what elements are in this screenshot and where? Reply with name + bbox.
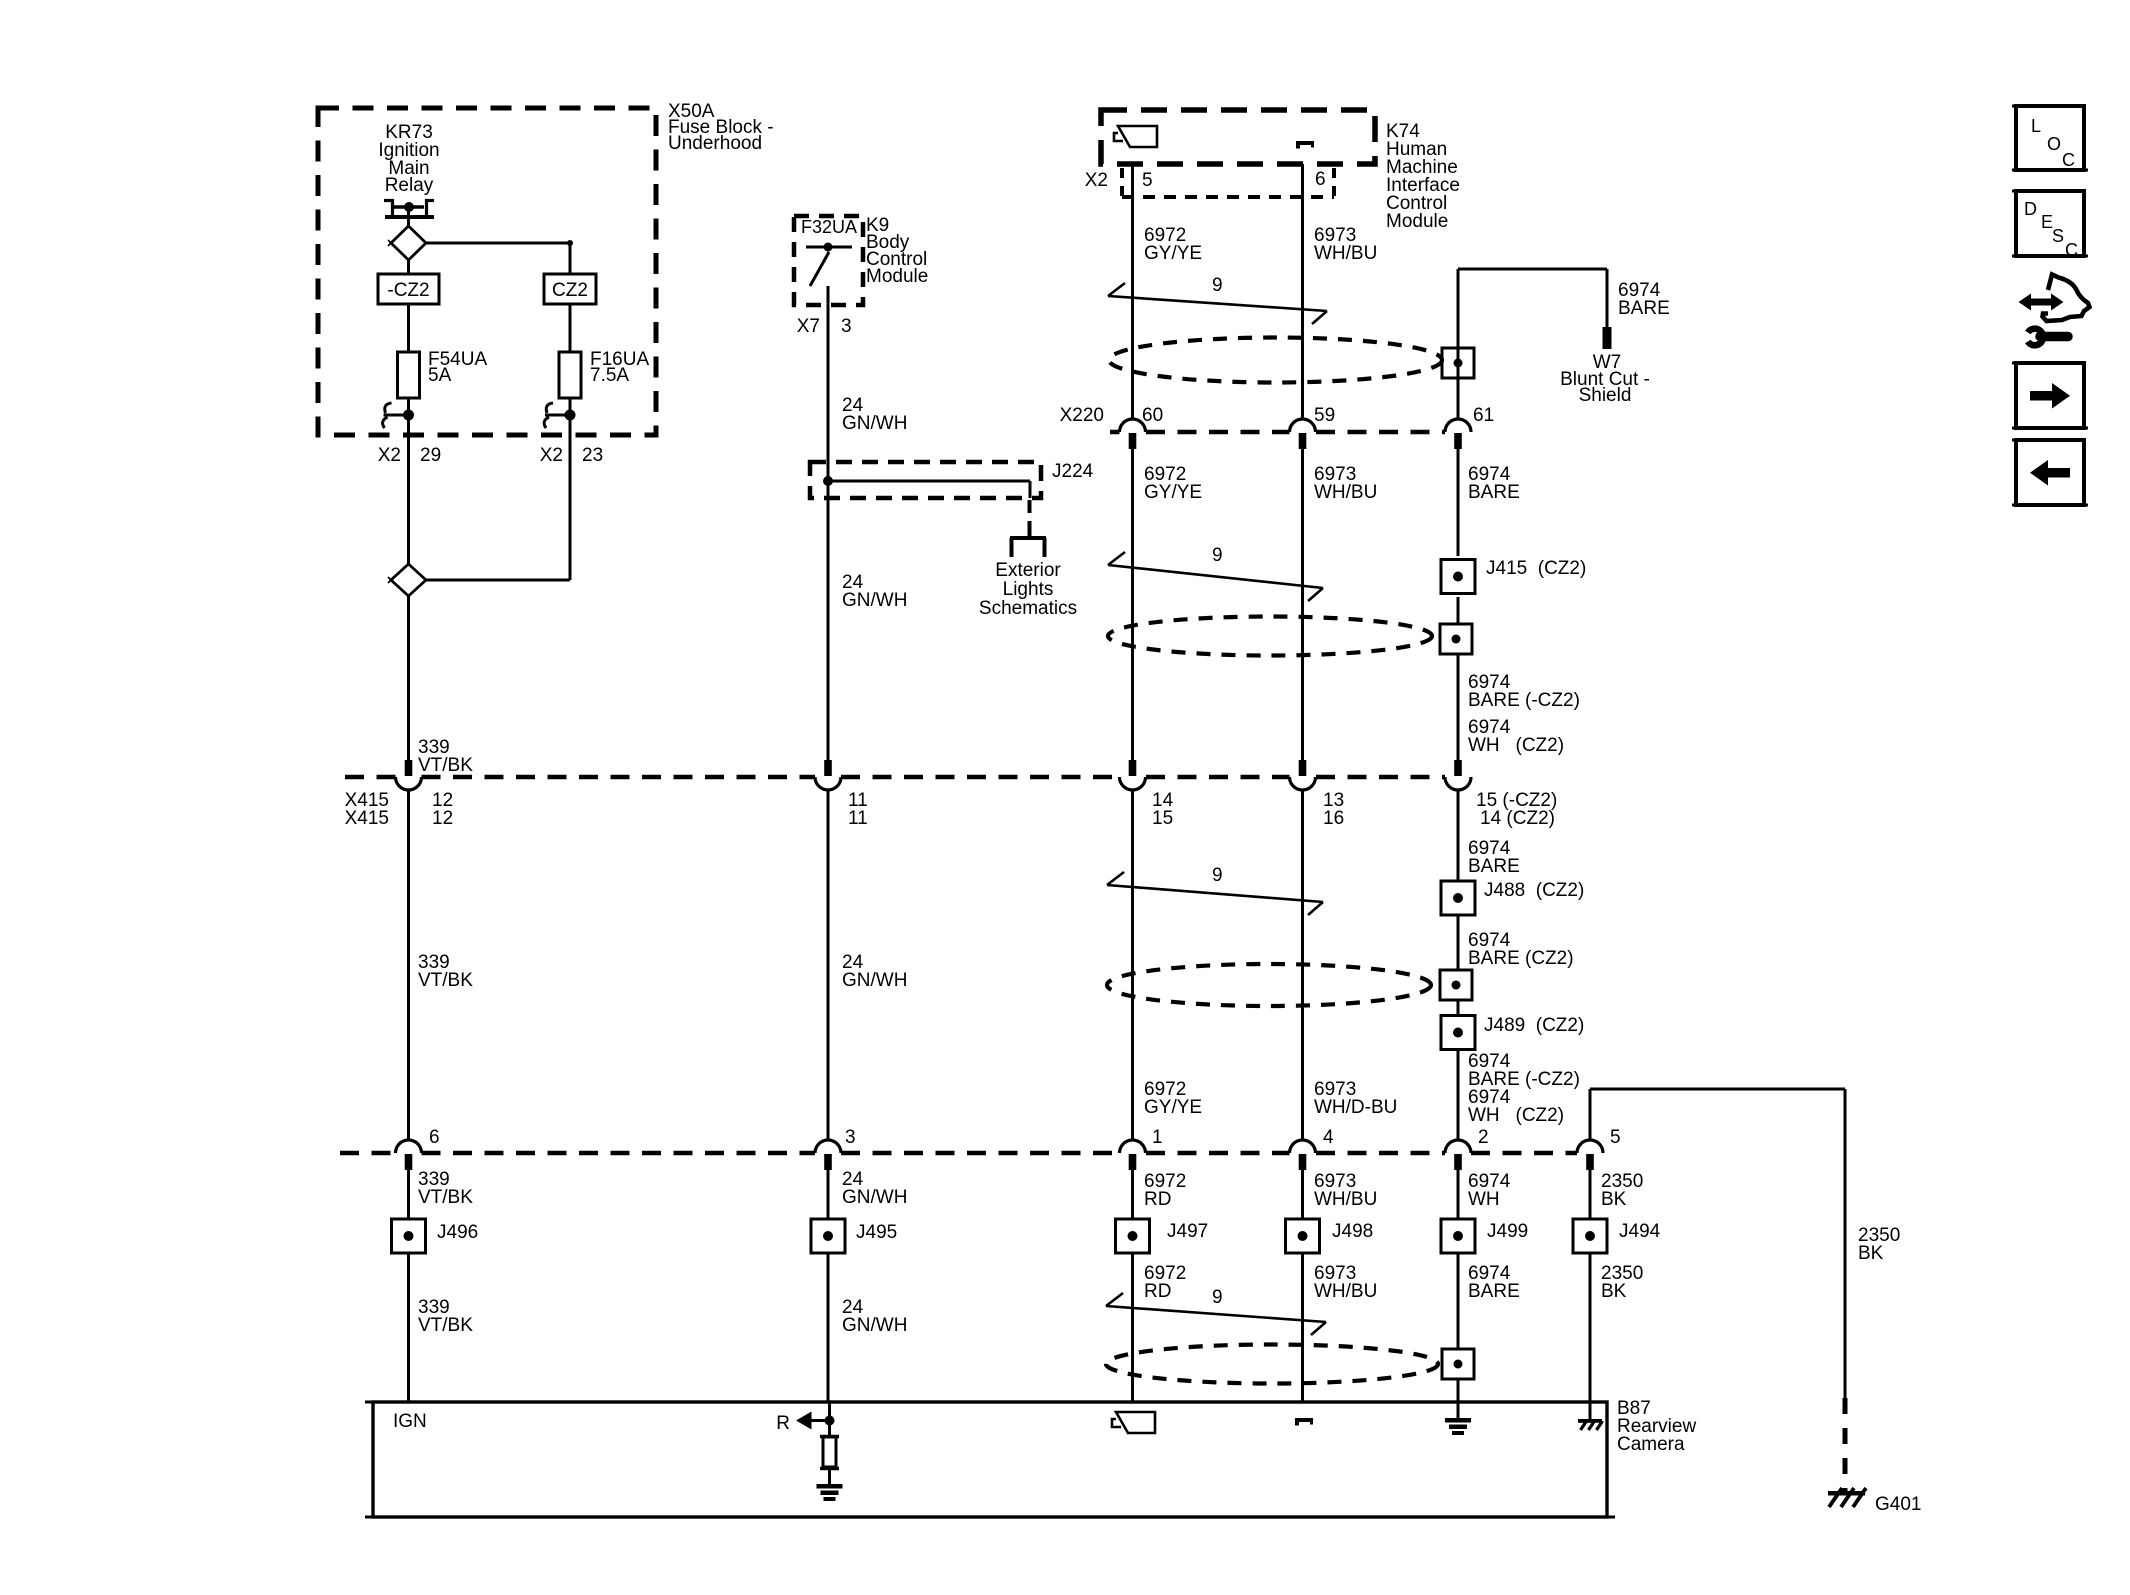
wire 6973 X415 to bottom connector <box>1301 790 1304 1140</box>
wire 6974 J415 to shield box <box>1457 597 1460 624</box>
shield connection box (third) on wire 6974 <box>1440 970 1472 1000</box>
svg-text:GN/WH: GN/WH <box>842 590 907 611</box>
wire 6972 J497 to B87 <box>1131 1253 1134 1402</box>
pin label X2 5 6 of K74 <box>1085 169 1326 191</box>
icon previous-page arrow box <box>2012 440 2088 505</box>
label W7 Blunt Cut - Shield <box>1560 352 1650 406</box>
node junction diamond lower <box>388 564 570 596</box>
svg-text:5A: 5A <box>428 365 452 386</box>
label wire 339 VT/BK (above X415) <box>418 737 473 776</box>
svg-text:J415 (CZ2): J415 (CZ2) <box>1486 558 1586 579</box>
svg-text:29: 29 <box>420 445 441 466</box>
svg-text:J488 (CZ2): J488 (CZ2) <box>1484 880 1584 901</box>
pin label X2 23 <box>540 445 603 466</box>
svg-text:5: 5 <box>1142 170 1153 191</box>
svg-text:C: C <box>2062 150 2075 170</box>
shield ellipse (third) <box>1107 964 1431 1006</box>
svg-text:9: 9 <box>1212 865 1223 886</box>
label KR73 Ignition Main Relay <box>378 122 439 196</box>
splice J489 (CZ2) <box>1441 1015 1584 1050</box>
svg-text:GY/YE: GY/YE <box>1144 243 1202 264</box>
label Exterior Lights Schematics <box>979 560 1077 619</box>
svg-text:9: 9 <box>1212 1287 1223 1308</box>
svg-text:Exterior: Exterior <box>995 560 1061 581</box>
svg-text:R: R <box>776 1413 790 1434</box>
label 6973 WH/BU below J498 <box>1314 1263 1377 1302</box>
svg-text:4: 4 <box>1323 1127 1334 1148</box>
wire 339 J496 to B87 <box>407 1253 410 1402</box>
wire 6974 shield drain from W7 corner <box>1458 269 1607 419</box>
wire 6972 X415 to bottom connector <box>1131 790 1134 1140</box>
relay contact output box -CZ2 <box>378 274 439 304</box>
label X415 X415 <box>345 790 389 829</box>
wire 6973 to J498 <box>1301 1170 1304 1219</box>
connector pin 4 bottom <box>1290 1140 1316 1170</box>
svg-text:BARE: BARE <box>1468 856 1520 877</box>
wire 2350 BK dashed drop to G401 <box>1843 1398 1848 1491</box>
wire fuse F16UA down to rejoin diamond <box>569 398 572 580</box>
label wire 6974 BARE (below X220) <box>1468 464 1520 503</box>
svg-text:BARE (-CZ2): BARE (-CZ2) <box>1468 690 1580 711</box>
twisted pair marker 9 (bottom) <box>1106 1287 1326 1335</box>
svg-text:BARE: BARE <box>1468 482 1520 503</box>
shield connection box (top) on wire 6974 <box>1442 348 1474 378</box>
module K74 Human Machine Interface Control Module dashed box <box>1101 110 1375 164</box>
wire relay to diamond <box>407 207 410 228</box>
wire fuse F54UA down through fuse block edge <box>407 398 410 564</box>
label 2350 BK below J494 <box>1601 1263 1643 1302</box>
label 6974 BARE above J488 <box>1468 838 1520 877</box>
wire 6974 shield box to J489 <box>1457 1000 1460 1015</box>
shield ellipse (second) <box>1108 617 1432 656</box>
label wire 6972 GY/YE above bottom connector <box>1144 1079 1202 1118</box>
wire 6973 WH/BU from K74 pin 6 to X220 <box>1301 164 1304 419</box>
splice J488 (CZ2) <box>1441 880 1584 915</box>
splice J496 <box>392 1219 479 1253</box>
svg-text:BK: BK <box>1601 1189 1627 1210</box>
module B87 Rearview Camera box <box>365 1402 1615 1517</box>
wire 339 to J496 <box>407 1170 410 1219</box>
label wire 24 GN/WH (mid) <box>842 952 907 991</box>
label F32UA <box>801 217 857 237</box>
wire branch diamond to CZ2 (horizontal) <box>426 240 573 274</box>
wire 6972 to J497 <box>1131 1170 1134 1219</box>
camera symbol inside K74 <box>1114 126 1157 147</box>
svg-text:J496: J496 <box>437 1222 478 1243</box>
connector pin 6 bottom <box>396 1140 422 1170</box>
label 6974 BARE (-CZ2) / 6974 WH (CZ2) above bottom connector <box>1468 1051 1580 1126</box>
label 6974 BARE at W7 <box>1618 280 1670 319</box>
resistor inside B87 <box>820 1437 839 1469</box>
shield ellipse (top) <box>1109 338 1442 383</box>
ground G401 symbol <box>1828 1488 1866 1507</box>
svg-text:BK: BK <box>1601 1281 1627 1302</box>
splice J498 <box>1286 1219 1374 1253</box>
wire 6974 X220 to J415 <box>1457 449 1460 556</box>
svg-text:G401: G401 <box>1875 1494 1921 1515</box>
label X50A Fuse Block - Underhood <box>668 101 774 154</box>
svg-text:J494: J494 <box>1619 1221 1661 1242</box>
wire 6974 shield box to B87 <box>1457 1379 1460 1402</box>
splice J494 <box>1573 1219 1661 1253</box>
svg-text:Lights: Lights <box>1003 579 1054 600</box>
svg-text:GN/WH: GN/WH <box>842 413 907 434</box>
fuse F54UA 5A <box>398 349 488 398</box>
svg-text:BARE (CZ2): BARE (CZ2) <box>1468 948 1574 969</box>
connector pins 13 16 at X415 wire 6973 <box>1290 760 1316 790</box>
label 6974 BARE below J499 <box>1468 1263 1520 1302</box>
icon DESC box <box>2012 191 2088 260</box>
label K9 Body Control Module <box>866 215 928 287</box>
clip terminal under F54UA <box>383 403 414 428</box>
svg-text:59: 59 <box>1314 405 1335 426</box>
svg-text:3: 3 <box>841 316 852 337</box>
label 339 VT/BK below pin 6 <box>418 1169 473 1208</box>
shield ellipse (bottom) <box>1106 1345 1438 1384</box>
wire 339 X415 to bottom connector <box>407 790 410 1140</box>
svg-text:WH (CZ2): WH (CZ2) <box>1468 735 1564 756</box>
svg-text:6: 6 <box>429 1127 440 1148</box>
dash symbol inside K74 <box>1296 141 1314 149</box>
twisted pair marker 9 (top) <box>1108 275 1327 324</box>
connector pin 60 at X220 <box>1120 419 1146 449</box>
connector pins 15 14 at X415 wire 6974 <box>1445 760 1471 790</box>
splice J499 <box>1441 1219 1528 1253</box>
off-page connector fork (exterior lights) <box>1010 521 1046 557</box>
blunt cut terminal W7 <box>1603 327 1612 349</box>
twisted pair marker 9 (second) <box>1108 545 1323 601</box>
fuse F16UA 7.5A <box>559 349 649 398</box>
svg-text:11: 11 <box>848 808 868 829</box>
wire dashed branch to exterior lights <box>1028 500 1032 523</box>
harness connector X415 dashed line <box>345 775 1445 780</box>
svg-text:VT/BK: VT/BK <box>418 970 473 991</box>
svg-text:O: O <box>2047 134 2061 154</box>
svg-text:Camera: Camera <box>1617 1434 1685 1455</box>
svg-text:IGN: IGN <box>393 1411 427 1432</box>
shield connection box (bottom) on wire 6974 <box>1442 1349 1474 1379</box>
internal ground symbol (camera reverse circuit) <box>817 1484 843 1501</box>
pin labels 13 16 <box>1323 790 1344 829</box>
label K74 Human Machine Interface Control Module <box>1386 121 1460 232</box>
connector pin 3 bottom <box>815 1140 841 1170</box>
label wire 6972 GY/YE (below X220) <box>1144 464 1202 503</box>
pin labels 14 15 <box>1152 790 1174 829</box>
label wire 6972 GY/YE (top) <box>1144 225 1202 264</box>
icon component locator (double arrow, outline, wrench) <box>2019 275 2090 346</box>
connector pin 59 at X220 <box>1290 419 1316 449</box>
svg-text:Underhood: Underhood <box>668 133 762 154</box>
svg-text:J495: J495 <box>856 1222 897 1243</box>
svg-text:J498: J498 <box>1332 1221 1373 1242</box>
wire 2350 to J494 <box>1589 1170 1592 1219</box>
wire 339 VT/BK diamond to X415 <box>407 596 410 760</box>
label IGN inside B87 <box>393 1411 427 1432</box>
wire 2350 BK from pin 5 up and right to G401 branch <box>1590 1089 1845 1398</box>
svg-text:23: 23 <box>582 445 603 466</box>
icon next-page arrow box <box>2012 363 2088 428</box>
svg-text:J497: J497 <box>1167 1221 1208 1242</box>
svg-text:GN/WH: GN/WH <box>842 1315 907 1336</box>
svg-text:GY/YE: GY/YE <box>1144 1097 1202 1118</box>
svg-text:WH/BU: WH/BU <box>1314 1281 1377 1302</box>
label 24 GN/WH below pin 3 <box>842 1169 907 1208</box>
wire 6974 into ground symbol inside B87 <box>1457 1402 1460 1418</box>
svg-text:X415: X415 <box>345 808 389 829</box>
splice pack J224 dashed box <box>810 462 1041 498</box>
harness connector X220 dashed line <box>1110 430 1445 435</box>
wire 24 GN/WH from K9 to X415 <box>827 286 830 760</box>
svg-text:7.5A: 7.5A <box>590 365 629 386</box>
svg-text:61: 61 <box>1473 405 1494 426</box>
svg-text:X2: X2 <box>1085 170 1108 191</box>
svg-text:X2: X2 <box>378 445 401 466</box>
svg-text:WH (CZ2): WH (CZ2) <box>1468 1105 1564 1126</box>
svg-text:GY/YE: GY/YE <box>1144 482 1202 503</box>
svg-text:F32UA: F32UA <box>801 217 857 237</box>
svg-text:RD: RD <box>1144 1189 1171 1210</box>
svg-text:12: 12 <box>432 808 453 829</box>
wire 6974 J499 to shield box bottom <box>1457 1253 1460 1348</box>
svg-text:14 (CZ2): 14 (CZ2) <box>1480 808 1555 829</box>
connector pin 1 bottom <box>1120 1140 1146 1170</box>
svg-text:L: L <box>2031 116 2041 136</box>
clip terminal under F16UA <box>544 403 575 428</box>
connector pin 2 bottom <box>1445 1140 1471 1170</box>
wire 6974 to J499 <box>1457 1170 1460 1219</box>
label G401 <box>1875 1494 1921 1515</box>
shield connection box (second) on wire 6974 <box>1440 624 1472 654</box>
label 6972 RD below pin 1 <box>1144 1171 1186 1210</box>
svg-text:WH/BU: WH/BU <box>1314 1189 1377 1210</box>
svg-text:BARE: BARE <box>1468 1281 1520 1302</box>
reverse input R arrow and junction <box>776 1402 834 1437</box>
pin label X2 29 <box>378 445 441 466</box>
svg-text:Module: Module <box>866 266 928 287</box>
label 6972 RD below J497 <box>1144 1263 1186 1302</box>
svg-text:X220: X220 <box>1060 405 1104 426</box>
wire 24 X415 to bottom connector <box>827 790 830 1140</box>
wire CZ2 to fuse F16UA <box>569 304 572 352</box>
camera symbol inside B87 <box>1112 1412 1155 1433</box>
connector pins 12 12 at X415 wire 339 <box>396 760 422 790</box>
connector pins 14 15 at X415 wire 6972 <box>1120 760 1146 790</box>
connector X2 of K74 dashed outline <box>1122 168 1334 197</box>
dash symbol inside B87 <box>1295 1418 1313 1426</box>
wire 24 to J495 <box>827 1170 830 1219</box>
wire 6972 X220 to X415 <box>1131 449 1134 760</box>
wire resistor to internal ground <box>828 1469 831 1484</box>
pin number labels 6 3 1 4 2 5 <box>429 1127 1621 1148</box>
svg-text:CZ2: CZ2 <box>552 280 588 301</box>
label 6974 WH below pin 2 <box>1468 1171 1511 1210</box>
splice J497 <box>1116 1219 1209 1253</box>
svg-text:5: 5 <box>1610 1127 1621 1148</box>
svg-text:J224: J224 <box>1052 461 1094 482</box>
svg-text:VT/BK: VT/BK <box>418 1187 473 1208</box>
label 2350 BK below pin 5 <box>1601 1171 1643 1210</box>
wire 6974 J488 to shield box third <box>1457 916 1460 970</box>
svg-text:J489 (CZ2): J489 (CZ2) <box>1484 1015 1584 1036</box>
splice J415 (CZ2) <box>1441 558 1586 594</box>
svg-text:WH/BU: WH/BU <box>1314 482 1377 503</box>
label 2350 BK right side <box>1858 1225 1900 1264</box>
svg-text:VT/BK: VT/BK <box>418 755 473 776</box>
wire 6972 GY/YE from K74 pin 5 to X220 <box>1131 164 1134 419</box>
module K9 Body Control Module fuse F32UA dashed box <box>794 216 863 305</box>
svg-text:WH: WH <box>1468 1189 1500 1210</box>
label wire 6973 WH/BU (below X220) <box>1314 464 1377 503</box>
fuse element F32UA symbol <box>806 243 852 287</box>
label wire 339 VT/BK (mid) <box>418 952 473 991</box>
svg-text:S: S <box>2052 226 2064 246</box>
svg-text:C: C <box>2065 240 2078 260</box>
label wire 6973 WH/BU (top) <box>1314 225 1377 264</box>
svg-text:X7: X7 <box>797 316 820 337</box>
svg-text:GN/WH: GN/WH <box>842 970 907 991</box>
svg-text:X2: X2 <box>540 445 563 466</box>
svg-text:1: 1 <box>1152 1127 1163 1148</box>
wire 6974 J489 to bottom connector <box>1457 1050 1460 1140</box>
relay KR73 terminal symbol <box>384 199 434 217</box>
twisted pair marker 9 (third) <box>1107 865 1323 915</box>
label 24 GN/WH below J495 <box>842 1297 907 1336</box>
svg-text:60: 60 <box>1142 405 1163 426</box>
wire 6973 J498 to B87 <box>1301 1253 1304 1402</box>
wire 2350 into chassis ground inside B87 <box>1589 1402 1592 1419</box>
svg-text:6: 6 <box>1315 169 1326 190</box>
label B87 Rearview Camera <box>1617 1398 1696 1455</box>
wire 6974 shield box to X415 <box>1457 654 1460 760</box>
svg-text:15: 15 <box>1152 808 1173 829</box>
svg-text:16: 16 <box>1323 808 1344 829</box>
label wire 24 GN/WH (below J224) <box>842 572 907 611</box>
relay contact output box CZ2 <box>544 274 596 304</box>
pin label X7 3 <box>797 316 852 337</box>
svg-text:Module: Module <box>1386 211 1448 232</box>
svg-text:2: 2 <box>1478 1127 1489 1148</box>
svg-text:D: D <box>2024 199 2037 219</box>
wire 6973 X220 to X415 <box>1301 449 1304 760</box>
icon LOC box <box>2012 106 2088 170</box>
svg-text:RD: RD <box>1144 1281 1171 1302</box>
connector pin 61 at X220 <box>1445 419 1471 449</box>
svg-text:J499: J499 <box>1487 1221 1528 1242</box>
label wire 24 GN/WH (below K9) <box>842 395 907 434</box>
pin labels 15 (-CZ2) 14 (CZ2) <box>1476 790 1557 829</box>
label 6973 WH/BU below pin 4 <box>1314 1171 1377 1210</box>
wire diamond to -CZ2 box <box>407 260 410 274</box>
wire 24 J495 to B87 <box>827 1253 830 1402</box>
svg-text:BK: BK <box>1858 1243 1884 1264</box>
chassis ground symbol inside B87 <box>1578 1419 1603 1430</box>
wire 2350 J494 to B87 <box>1589 1253 1592 1402</box>
svg-text:Schematics: Schematics <box>979 598 1077 619</box>
node junction diamond upper <box>388 226 426 260</box>
label X220 and pin numbers 60 59 61 <box>1060 405 1495 426</box>
label 339 VT/BK below J496 <box>418 1297 473 1336</box>
svg-text:Shield: Shield <box>1579 385 1632 406</box>
connector pin 5 bottom <box>1577 1140 1603 1170</box>
label 6974 BARE (CZ2) <box>1468 930 1574 969</box>
svg-text:BARE: BARE <box>1618 298 1670 319</box>
signal ground symbol inside B87 <box>1445 1418 1471 1435</box>
label J224 <box>1052 461 1094 482</box>
label 6974 BARE (-CZ2) mid <box>1468 672 1580 711</box>
svg-text:9: 9 <box>1212 545 1223 566</box>
svg-text:VT/BK: VT/BK <box>418 1315 473 1336</box>
wire 6974 X415 to J488 <box>1457 790 1460 880</box>
svg-text:3: 3 <box>845 1127 856 1148</box>
pin labels 11 11 <box>848 790 868 829</box>
module X50A Fuse Block - Underhood dashed box <box>318 108 656 435</box>
svg-text:WH/D-BU: WH/D-BU <box>1314 1097 1397 1118</box>
svg-text:GN/WH: GN/WH <box>842 1187 907 1208</box>
svg-text:-CZ2: -CZ2 <box>387 280 429 301</box>
pin labels 12 12 <box>432 790 453 829</box>
harness inline connector dashed line (camera connector) <box>340 1151 1577 1156</box>
splice J224 node and branch <box>823 476 1030 498</box>
label 6974 WH (CZ2) mid <box>1468 717 1564 756</box>
svg-text:9: 9 <box>1212 275 1223 296</box>
svg-text:WH/BU: WH/BU <box>1314 243 1377 264</box>
connector pins 11 11 at X415 wire 24 <box>815 760 841 790</box>
svg-text:Relay: Relay <box>385 175 434 196</box>
wire -CZ2 to fuse F54UA <box>407 304 410 352</box>
label wire 6973 WH/D-BU above bottom connector <box>1314 1079 1397 1118</box>
splice J495 <box>811 1219 897 1253</box>
